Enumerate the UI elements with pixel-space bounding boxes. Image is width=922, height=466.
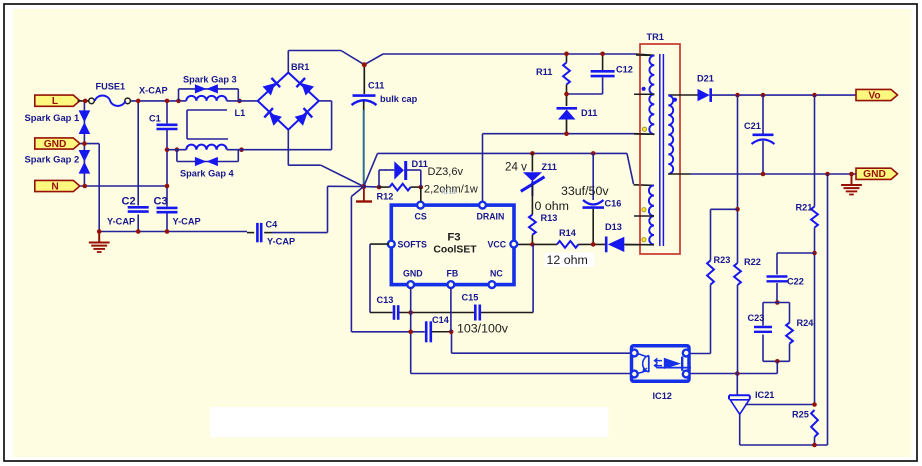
svg-text:R14: R14 — [559, 228, 577, 238]
diode BR1 top-left — [262, 78, 280, 96]
diode D21 — [698, 88, 711, 102]
label DRAIN — [477, 211, 505, 221]
port L — [35, 95, 80, 107]
svg-text:bulk cap: bulk cap — [380, 94, 418, 104]
label FUSE1 — [96, 82, 126, 92]
spark gap SG4 loop — [177, 150, 238, 162]
node R25 bottom — [812, 443, 817, 448]
label IC11 ghost — [441, 187, 456, 196]
svg-text:24 v: 24 v — [505, 160, 527, 173]
node C16 VCC — [591, 242, 596, 247]
resistor R13 — [529, 215, 536, 235]
wire R21 bottom — [814, 228, 816, 405]
pin NC — [489, 281, 496, 288]
node GND C13 — [408, 310, 413, 315]
svg-text:C22: C22 — [787, 277, 804, 287]
diode BR1 bottom-left — [264, 108, 282, 126]
wire L-N vertical — [83, 101, 85, 186]
svg-text:BR1: BR1 — [291, 62, 309, 72]
label 0 ohm — [535, 199, 569, 213]
label F3 — [447, 231, 460, 243]
wire snubber top — [566, 54, 568, 63]
pin CS — [417, 202, 424, 209]
wire block stub — [776, 361, 778, 373]
svg-text:R13: R13 — [541, 213, 558, 223]
svg-text:33uf/50v: 33uf/50v — [561, 184, 609, 198]
spark gap SG1 — [79, 110, 91, 134]
power primary ground bar — [356, 187, 372, 202]
wire earth rail — [99, 231, 247, 233]
wire C12 top — [602, 54, 604, 70]
wire R12 stub left — [379, 186, 390, 188]
svg-text:X-CAP: X-CAP — [139, 86, 168, 96]
node aux pin mark1 — [642, 208, 646, 212]
wire bottom row — [740, 437, 828, 445]
label Spark Gap 1 — [25, 112, 80, 123]
svg-text:CoolSET: CoolSET — [433, 245, 477, 256]
node primary pin mark — [642, 127, 646, 131]
svg-text:Z11: Z11 — [542, 162, 557, 172]
svg-text:TR1: TR1 — [647, 32, 664, 42]
pin FB — [448, 281, 455, 288]
svg-text:C15: C15 — [462, 293, 479, 303]
node block bottom — [775, 359, 780, 364]
wire R12 stub right — [411, 186, 421, 188]
label 33uf/50v — [561, 184, 609, 198]
svg-text:C23: C23 — [748, 313, 765, 323]
transformer core — [660, 54, 664, 246]
wire R23 to opto — [689, 285, 711, 354]
wire R23 branch — [711, 209, 738, 260]
svg-text:FUSE1: FUSE1 — [96, 82, 126, 92]
wire right rail — [827, 174, 829, 445]
wire Vo — [711, 94, 856, 96]
wire choke bottom out — [227, 101, 332, 150]
label C23 — [748, 313, 765, 323]
label VCC — [488, 240, 507, 250]
svg-text:Y-CAP: Y-CAP — [267, 236, 295, 246]
node FB C14 — [449, 330, 454, 335]
wire C4 to junction — [272, 186, 364, 232]
label CS — [415, 211, 427, 221]
label C1 — [149, 113, 161, 123]
label R11 — [536, 67, 552, 77]
wire C22 bottom — [776, 283, 778, 303]
wire bridge minus — [288, 130, 363, 187]
whitebox — [210, 407, 609, 437]
svg-text:L1: L1 — [235, 108, 246, 118]
label C22 — [787, 277, 804, 287]
label R23 — [714, 255, 731, 265]
svg-text:IC21: IC21 — [755, 390, 774, 400]
label bulk cap — [380, 94, 418, 104]
svg-text:C3: C3 — [154, 196, 168, 208]
label R24 — [797, 318, 815, 328]
node R12 right — [419, 185, 424, 190]
label 12 ohm — [547, 253, 588, 267]
svg-text:R23: R23 — [714, 255, 731, 265]
capacitor C21 — [752, 95, 775, 174]
svg-text:Vo: Vo — [868, 90, 880, 101]
diode D11 snubber — [557, 94, 578, 134]
diode D13 — [606, 237, 654, 253]
node R13 VCC — [530, 242, 535, 247]
wire choke bottom in — [167, 149, 186, 151]
svg-text:D21: D21 — [697, 74, 714, 84]
label GND pin — [403, 269, 423, 279]
node primary ground junction — [361, 184, 366, 189]
node R25 top — [812, 402, 817, 407]
svg-text:NC: NC — [490, 269, 503, 279]
wire C13 row — [370, 312, 393, 314]
diode BR1 bottom-right — [294, 108, 312, 126]
capacitor C15 — [475, 305, 480, 321]
svg-text:SOFTS: SOFTS — [398, 240, 427, 250]
node tap209 — [735, 207, 740, 212]
label C16 — [605, 198, 622, 208]
spark gap SG3 — [195, 84, 218, 93]
zener DZ D11 — [385, 161, 421, 180]
svg-text:C2: C2 — [122, 196, 136, 208]
bridge BR1 diamond — [258, 73, 319, 130]
svg-text:C21: C21 — [744, 121, 761, 131]
svg-text:VCC: VCC — [488, 240, 507, 250]
label TR1 — [647, 32, 664, 42]
svg-text:GND: GND — [403, 269, 423, 279]
svg-text:R24: R24 — [797, 318, 815, 328]
svg-text:Spark Gap 4: Spark Gap 4 — [180, 169, 235, 179]
label C4 — [266, 219, 279, 229]
label D11 snubber — [581, 108, 597, 118]
wire VCC — [514, 243, 557, 245]
wire Z11 to R13 — [531, 185, 533, 215]
label Spark Gap 3 — [183, 74, 237, 84]
wire GND flag leg — [80, 144, 99, 232]
svg-text:C12: C12 — [616, 64, 633, 74]
wire C16 stub top — [592, 153, 594, 200]
label SOFTS — [398, 240, 427, 250]
svg-text:Y-CAP: Y-CAP — [107, 217, 135, 227]
wire C13 to C15 — [400, 312, 475, 314]
node gnd3 — [849, 172, 854, 177]
label C2 — [122, 196, 136, 208]
resistor R14 — [557, 241, 578, 248]
node primary dot — [642, 87, 646, 91]
label DZ36 — [428, 166, 464, 178]
node secondary dot — [673, 98, 677, 102]
wire GND out — [690, 173, 856, 175]
node C12 top — [600, 52, 605, 57]
svg-text:GND: GND — [863, 169, 886, 180]
label FB pin — [447, 269, 459, 279]
ground earth out — [841, 174, 862, 195]
resistor R23 — [707, 260, 714, 284]
pin VCC — [510, 241, 517, 248]
svg-text:IC12: IC12 — [653, 391, 672, 401]
port GND input — [35, 138, 80, 150]
node Vo3 — [812, 93, 817, 98]
label R21 — [796, 202, 813, 212]
resistor R24 — [786, 323, 793, 344]
svg-text:Spark Gap 1: Spark Gap 1 — [25, 112, 80, 123]
node Vo2 — [761, 93, 766, 98]
capacitor C23 — [754, 327, 772, 332]
node gnd2 — [825, 172, 830, 177]
label 103/100v — [457, 321, 509, 335]
wire C2 branch — [137, 101, 139, 232]
resistor R22 — [734, 263, 741, 285]
svg-text:IC11: IC11 — [441, 187, 456, 196]
svg-text:Y-CAP: Y-CAP — [173, 217, 201, 227]
label R12 — [377, 191, 394, 201]
node C11 top junction — [362, 62, 367, 67]
capacitor C12 — [591, 71, 615, 76]
capacitor C22 — [767, 277, 788, 282]
wire C14 row — [351, 187, 451, 332]
svg-text:DZ3,6v: DZ3,6v — [428, 166, 464, 178]
svg-text:R21: R21 — [796, 202, 813, 212]
label IC21 — [755, 390, 774, 400]
svg-text:D11: D11 — [581, 108, 597, 118]
label 22ohm — [424, 184, 478, 196]
node C16 top — [591, 151, 596, 156]
label Y-CAP left — [107, 217, 135, 227]
transformer TR1 box — [640, 44, 680, 254]
label C15 — [462, 293, 479, 303]
label C11 — [368, 81, 384, 91]
optocoupler IC12 — [631, 346, 691, 382]
resistor R12 — [390, 184, 411, 191]
label D21 — [697, 74, 714, 84]
inductor L1 core — [187, 110, 228, 139]
shunt IC21 — [729, 395, 750, 445]
capacitor C16 — [583, 200, 605, 208]
pin SOFTS — [388, 241, 395, 248]
capacitor C3 — [157, 208, 178, 212]
svg-text:DRAIN: DRAIN — [477, 211, 505, 221]
wire aux ground — [364, 153, 654, 186]
label R25 — [792, 409, 809, 419]
label CoolSET — [433, 245, 477, 256]
svg-text:C13: C13 — [377, 295, 394, 305]
wire choke top out — [227, 100, 258, 102]
winding aux — [625, 185, 654, 244]
svg-text:D13: D13 — [605, 222, 622, 232]
wire IC21 stub — [736, 374, 738, 396]
op-amp U1 CoolSET box — [391, 205, 514, 285]
svg-text:Spark Gap 3: Spark Gap 3 — [183, 74, 237, 84]
svg-text:103/100v: 103/100v — [457, 321, 509, 335]
resistor R25 — [811, 410, 818, 437]
wire divider tap — [777, 253, 815, 275]
inductor L1 bottom winding — [186, 145, 226, 150]
pin DRAIN — [479, 202, 486, 209]
svg-text:0 ohm: 0 ohm — [535, 199, 569, 213]
wire SOFTS — [370, 244, 389, 312]
junction dots input — [82, 99, 244, 234]
wire R14 to D13 — [578, 243, 605, 245]
svg-text:C4: C4 — [266, 219, 279, 229]
pin GND — [407, 281, 414, 288]
capacitor C14 — [426, 321, 431, 342]
node D11 top — [564, 92, 569, 97]
label C12 — [616, 64, 633, 74]
inductor L1 top winding — [186, 96, 226, 101]
ground earth left — [89, 232, 110, 253]
port N — [35, 180, 80, 192]
label R14 — [559, 228, 577, 238]
svg-text:R12: R12 — [377, 191, 394, 201]
svg-text:C11: C11 — [368, 81, 384, 91]
svg-text:C16: C16 — [605, 198, 622, 208]
node gnd1 — [761, 172, 766, 177]
label IC12 — [653, 391, 672, 401]
box 12ohm — [545, 253, 595, 267]
wire C11 top stub — [363, 65, 365, 94]
winding primary — [634, 55, 654, 134]
port Vo — [856, 89, 898, 101]
wire FB to opto — [452, 332, 632, 353]
capacitor C1 — [157, 125, 178, 129]
label D13 — [605, 222, 622, 232]
wire R21 branch — [814, 95, 816, 206]
label Spark Gap 4 — [180, 169, 235, 179]
wire C16 stub bottom — [592, 209, 594, 245]
label L1 — [235, 108, 246, 118]
wire GND drop — [411, 287, 632, 374]
node Vo1 — [735, 93, 740, 98]
label R13 — [541, 213, 558, 223]
svg-text:N: N — [51, 181, 58, 192]
spark gap SG4 — [195, 157, 218, 166]
wire bridge plus — [288, 51, 654, 73]
svg-text:C1: C1 — [149, 113, 161, 123]
zener Z11 — [521, 172, 545, 196]
wire C11 bottom — [363, 102, 365, 187]
capacitor C13 — [394, 305, 398, 320]
svg-text:L: L — [52, 96, 58, 107]
label Y-CAP right — [173, 217, 201, 227]
node R21 bottom — [812, 251, 817, 256]
svg-text:12 ohm: 12 ohm — [547, 253, 588, 267]
svg-text:R11: R11 — [536, 67, 552, 77]
wire R13 bottom — [531, 235, 533, 245]
node R22 bottom — [735, 371, 740, 376]
wire Z11 stub — [531, 153, 533, 171]
label Y-CAP C4 — [267, 236, 295, 246]
svg-text:Spark Gap 2: Spark Gap 2 — [25, 154, 80, 165]
wire C1C3 branch — [166, 101, 168, 232]
svg-text:R22: R22 — [744, 257, 761, 267]
diode BR1 top-right — [296, 78, 314, 96]
wire R22 to row — [737, 285, 739, 374]
node aux pin mark2 — [642, 238, 646, 242]
node R12 left — [377, 185, 382, 190]
wire block frame — [763, 303, 790, 362]
svg-text:FB: FB — [447, 269, 459, 279]
label BR1 — [291, 62, 309, 72]
capacitor C11 — [352, 96, 377, 105]
label Z11 — [542, 162, 557, 172]
label Spark Gap 2 — [25, 154, 80, 165]
svg-text:F3: F3 — [447, 231, 460, 243]
wire IC21 ref — [745, 404, 815, 406]
label C13 — [377, 295, 394, 305]
label D11 zener — [412, 159, 428, 169]
svg-text:D11: D11 — [412, 159, 428, 169]
wire R12 loop left — [379, 170, 386, 187]
label C21 — [744, 121, 761, 131]
wire L line — [78, 100, 187, 102]
wire opto row — [689, 373, 777, 375]
label NC pin — [490, 269, 503, 279]
node D11 bottom — [564, 131, 569, 136]
resistor R11 — [563, 63, 570, 85]
node Z11 top — [530, 151, 535, 156]
node GND C14 — [408, 330, 413, 335]
wire N line — [81, 185, 168, 187]
winding secondary — [668, 95, 697, 174]
capacitor C2 — [128, 207, 149, 211]
resistor R21 — [811, 207, 818, 228]
label 24 v — [505, 160, 527, 173]
label C3 — [154, 196, 168, 208]
svg-text:C14: C14 — [432, 315, 450, 325]
node R11 top — [564, 52, 569, 57]
wire FB drop — [450, 287, 452, 332]
fuse FUSE1 — [89, 96, 131, 106]
svg-text:GND: GND — [44, 139, 67, 150]
wire R11 bottom — [567, 78, 603, 95]
svg-text:CS: CS — [415, 211, 427, 221]
node block top — [775, 300, 780, 305]
label X-CAP — [139, 86, 168, 96]
wire R22 branch — [737, 95, 739, 263]
capacitor C4 — [247, 223, 272, 242]
label R22 — [744, 257, 761, 267]
port GND out — [856, 168, 898, 180]
label C14 — [432, 315, 450, 325]
spark gap SG3 loop — [179, 89, 239, 101]
spark gap SG2 — [79, 150, 91, 174]
wire C15 right — [481, 244, 533, 312]
wire loop right — [420, 170, 422, 202]
wire CS node — [364, 186, 379, 189]
wire drain net — [483, 134, 655, 201]
svg-text:R25: R25 — [792, 409, 809, 419]
